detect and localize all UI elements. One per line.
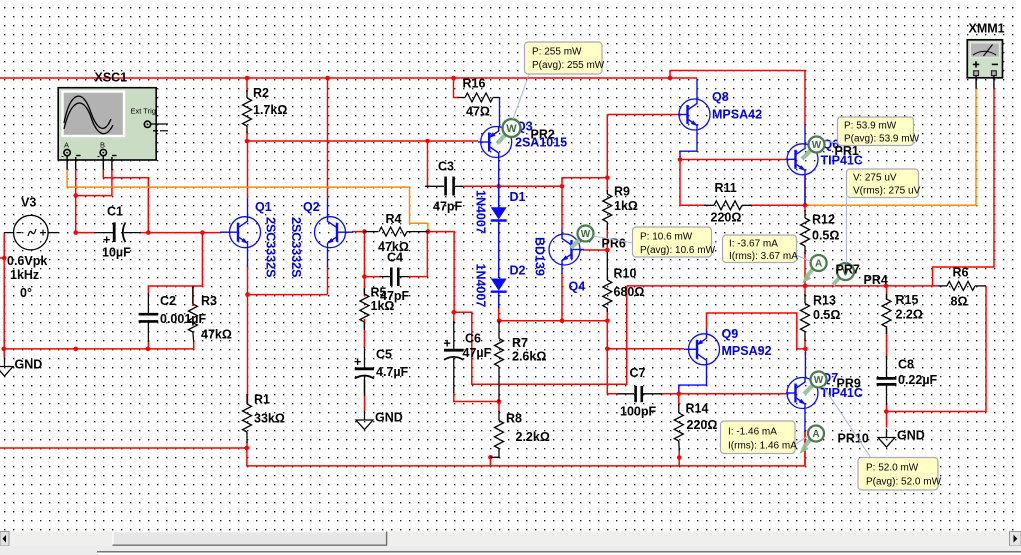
- svg-text:GND: GND: [375, 411, 403, 425]
- wire scope B minus jog: [76, 169, 112, 196]
- wire 607 column to Q9 base junction: [606, 321, 608, 349]
- svg-text:1.7kΩ: 1.7kΩ: [253, 103, 287, 117]
- node Q4 base: [605, 248, 610, 253]
- wire feedback loop rail to C6 node: [454, 286, 627, 384]
- node input B plus: [146, 230, 151, 235]
- svg-text:47pF: 47pF: [433, 200, 463, 214]
- wire R15 bottom to C8: [886, 326, 888, 358]
- svg-text:I: -3.67 mA: I: -3.67 mA: [729, 239, 778, 250]
- svg-text:C6: C6: [465, 332, 481, 346]
- transistor Q6 TIP41C npn: [785, 124, 818, 204]
- svg-text:BD139: BD139: [533, 237, 547, 276]
- wire scope A plus orange: [67, 88, 976, 232]
- svg-text:4.7µF: 4.7µF: [376, 365, 409, 379]
- svg-text:A: A: [64, 141, 69, 150]
- resistor R16 47 horizontal: [457, 93, 500, 127]
- wire R7 bottom R8 top: [498, 402, 500, 413]
- resistor R10 680 vertical: [603, 252, 612, 312]
- wire Q9 emitter up to R13 bottom node: [707, 313, 806, 349]
- svg-text:V3: V3: [21, 196, 36, 210]
- node R2 bottom: [245, 139, 250, 144]
- probe PR10 ammeter: [800, 426, 825, 455]
- node y321 D2: [497, 318, 502, 323]
- svg-text:2SC3332S: 2SC3332S: [289, 217, 303, 277]
- svg-text:I: -1.46 mA: I: -1.46 mA: [728, 427, 777, 438]
- svg-text:C8: C8: [898, 358, 914, 372]
- wire D string top lead: [498, 186, 500, 206]
- wire node jog 562 to 607 column: [562, 178, 607, 187]
- svg-text:0.5Ω: 0.5Ω: [813, 308, 840, 322]
- svg-text:V: 275 uV: V: 275 uV: [853, 173, 897, 184]
- wire Q6 emitter: [804, 176, 806, 206]
- svg-text:P: 52.0 mW: P: 52.0 mW: [866, 463, 919, 474]
- wire emitters join: [248, 294, 328, 296]
- wire V3 left down left edge: [3, 233, 5, 349]
- svg-text:2.6kΩ: 2.6kΩ: [512, 350, 546, 364]
- callout PR1 to box: [825, 141, 843, 144]
- node R4 right: [426, 229, 431, 234]
- resistor R6 8 horizontal: [938, 281, 986, 290]
- capacitor C8 0.22uF vertical: [877, 356, 897, 405]
- multimeter XMM1: [967, 40, 1002, 89]
- tooltip P52 box: [858, 458, 942, 491]
- resistor R4 47k horizontal: [363, 227, 429, 236]
- svg-text:I(rms): 1.46 mA: I(rms): 1.46 mA: [728, 441, 797, 452]
- svg-text:P(avg): 255 mW: P(avg): 255 mW: [532, 60, 605, 71]
- wire R3 top lead: [192, 286, 194, 306]
- node output rail R15: [884, 284, 889, 289]
- diode D2 1N4007: [491, 279, 507, 309]
- svg-text:2.2Ω: 2.2Ω: [896, 308, 923, 322]
- node R14 bottom: [677, 455, 682, 460]
- svg-text:R4: R4: [386, 212, 402, 226]
- tooltip V275 box: [847, 169, 921, 198]
- callout PR7 to box: [796, 255, 811, 262]
- ground GND2 C5: [356, 411, 373, 430]
- node Q6 emitter R11 R12: [803, 203, 808, 208]
- node Q3 collector: [496, 184, 501, 189]
- svg-text:TIP41C: TIP41C: [821, 154, 863, 168]
- node Q9 base: [605, 347, 610, 352]
- wire scope A minus drop: [75, 169, 77, 233]
- probe PR1 W on Q6: [802, 137, 825, 160]
- svg-text:0.5Ω: 0.5Ω: [812, 229, 839, 243]
- svg-text:GND: GND: [15, 358, 43, 372]
- svg-text:+: +: [354, 355, 361, 369]
- svg-text:R11: R11: [715, 181, 737, 195]
- resistor R12 0.5 vertical: [801, 210, 810, 254]
- wire XMM1 minus drop: [933, 88, 995, 286]
- svg-text:P: 255 mW: P: 255 mW: [532, 47, 582, 58]
- node V3 minus stub: [2, 256, 7, 261]
- svg-text:10µF: 10µF: [102, 246, 131, 260]
- resistor R15 2.2 vertical: [882, 294, 891, 334]
- node R8 jog: [488, 455, 493, 460]
- tooltip P10.6 box: [633, 227, 716, 257]
- capacitor C4 47pF horizontal: [379, 268, 409, 287]
- wire C5 bottom to gnd: [364, 380, 366, 411]
- svg-text:P(avg): 52.0 mW: P(avg): 52.0 mW: [866, 477, 942, 488]
- resistor R7 2.6k vertical: [495, 321, 504, 402]
- svg-text:2.2kΩ: 2.2kΩ: [516, 430, 550, 444]
- svg-text:P: 10.6 mW: P: 10.6 mW: [640, 232, 693, 243]
- ground GND3 C8: [878, 429, 895, 448]
- svg-text:47Ω: 47Ω: [466, 105, 490, 119]
- svg-text:C7: C7: [630, 366, 646, 380]
- source V3 sine: [4, 215, 59, 250]
- tooltip P53.9 box: [838, 117, 920, 146]
- wire R9 bottom to Q4 base junction: [606, 226, 608, 253]
- wire R10 bottom to y321 node: [606, 308, 608, 321]
- svg-text:I(rms): 3.67 mA: I(rms): 3.67 mA: [729, 251, 798, 262]
- svg-text:33kΩ: 33kΩ: [254, 412, 285, 426]
- svg-text:V(rms): 275 uV: V(rms): 275 uV: [853, 186, 921, 197]
- wire R14 top lead: [678, 394, 680, 406]
- svg-text:R6: R6: [953, 266, 969, 280]
- svg-text:R9: R9: [614, 185, 630, 199]
- wire C3 right to Q3 collector node: [461, 185, 562, 187]
- diode D1 1N4007: [491, 186, 507, 278]
- node y321 Q4 emitter: [560, 318, 565, 323]
- svg-text:R12: R12: [812, 213, 835, 227]
- svg-text:Ext Trig: Ext Trig: [131, 107, 156, 116]
- capacitor C5 4.7uF electrolytic vertical: [355, 347, 374, 396]
- callout PR2 to box: [513, 75, 529, 120]
- wire C7 right to node: [661, 393, 679, 395]
- node C7 R14 Q7 base: [677, 392, 682, 397]
- wire R6 right drop to C8 bottom: [886, 286, 986, 412]
- wire Q2 collector riser: [327, 78, 329, 198]
- scrollbar right button: [1010, 532, 1021, 547]
- callout PR6 to box: [593, 236, 633, 243]
- wire XMM1 plus orange: [805, 88, 976, 205]
- svg-text:R14: R14: [686, 402, 709, 416]
- svg-text:Q9: Q9: [722, 327, 739, 341]
- svg-text:MPSA42: MPSA42: [712, 108, 762, 122]
- status strip: [0, 546, 1021, 555]
- svg-text:C3: C3: [438, 160, 454, 174]
- node C6 bottom R7R8: [497, 399, 502, 404]
- svg-text:D1: D1: [510, 190, 526, 204]
- node C4 branch: [362, 274, 367, 279]
- svg-text:C1: C1: [107, 205, 123, 219]
- transistor Q3 2SA1015 pnp: [478, 127, 512, 187]
- node top rail R2: [245, 76, 250, 81]
- probe PR6 W on Q4: [571, 226, 594, 249]
- svg-text:XMM1: XMM1: [969, 22, 1005, 36]
- resistor R2 1.7k vertical: [243, 90, 252, 133]
- svg-text:R3: R3: [201, 294, 217, 308]
- svg-text:+: +: [444, 337, 451, 351]
- wire R12 top lead: [804, 205, 806, 212]
- wire top supply rail: [0, 77, 697, 79]
- callout PR4 to box: [845, 197, 847, 263]
- wire ground rail main: [247, 432, 805, 466]
- transistor Q7 TIP41C npn: [786, 352, 818, 432]
- wire D2 bottom lead: [498, 306, 500, 321]
- svg-text:2SC3332S: 2SC3332S: [264, 217, 278, 277]
- node gnd rail C2: [146, 347, 151, 352]
- svg-text:1kΩ: 1kΩ: [614, 199, 638, 213]
- transistor Q4 BD139 npn mirrored: [549, 229, 584, 274]
- wire R1 top from emitter node: [247, 295, 249, 405]
- oscilloscope XSC1: [58, 88, 168, 170]
- node output rail R13: [803, 284, 808, 289]
- resistor R5 1k vertical: [360, 288, 369, 330]
- svg-text:R15: R15: [896, 293, 919, 307]
- wire Q8 emitter to Q6 base: [680, 156, 785, 160]
- node R13 bottom Q7 collector: [803, 347, 808, 352]
- wire Q7 collector stub: [804, 349, 806, 355]
- wire V3 plus to C1: [76, 232, 95, 234]
- wire Q9 base: [607, 348, 684, 350]
- callout PR10 to box: [795, 436, 809, 445]
- wire R16 left lead drop: [454, 78, 460, 98]
- svg-text:C5: C5: [376, 348, 392, 362]
- svg-text:R5: R5: [371, 286, 387, 300]
- svg-text:R1: R1: [254, 393, 270, 407]
- node top rail Q6 branch: [668, 76, 673, 81]
- node C6 top: [452, 310, 457, 315]
- wire Q8 base net: [607, 114, 680, 116]
- wire Q7 emitter to rail: [804, 431, 806, 466]
- node gnd rail left: [2, 347, 7, 352]
- wire branch to Q6 collector: [670, 71, 805, 126]
- svg-text:P(avg): 53.9 mW: P(avg): 53.9 mW: [844, 134, 920, 145]
- wire C1 right to Q1 base: [140, 232, 220, 234]
- capacitor C6 47uF electrolytic vertical: [444, 321, 464, 393]
- svg-text:B: B: [100, 141, 105, 150]
- resistor R9 1k vertical: [603, 190, 612, 230]
- wire Q8 emitter down to R11: [680, 160, 706, 206]
- resistor R14 220 vertical: [674, 404, 683, 451]
- wire C8 bottom node: [886, 404, 888, 428]
- svg-text:R10: R10: [614, 267, 637, 281]
- wire Q4 collector drop: [561, 186, 563, 229]
- svg-text:0.001µF: 0.001µF: [160, 312, 206, 326]
- svg-text:C4: C4: [387, 251, 403, 265]
- node emitters join: [245, 292, 250, 297]
- svg-text:8Ω: 8Ω: [951, 295, 968, 309]
- node Q2 base R4: [362, 229, 367, 234]
- tooltip I3.67 box: [723, 235, 799, 263]
- svg-text:PR10: PR10: [838, 432, 869, 446]
- node y321 R10: [605, 318, 610, 323]
- wire R1 bottom lead: [246, 442, 248, 448]
- wire C4 right riser: [407, 232, 427, 277]
- callout PR9 to box: [823, 386, 871, 458]
- node C8 bottom gnd: [884, 409, 889, 414]
- svg-text:W: W: [506, 123, 517, 135]
- wire C2R3 tap riser: [148, 233, 202, 295]
- wire C3 tap from y141 node: [427, 141, 429, 186]
- wire Q2 emitter drop: [327, 266, 329, 295]
- node top rail Q2: [325, 76, 330, 81]
- transistor Q8 MPSA42 npn: [678, 79, 710, 157]
- wire R14 bottom to rail: [678, 450, 680, 466]
- node input C2 tap: [200, 230, 205, 235]
- svg-text:R8: R8: [506, 412, 522, 426]
- svg-text:Q8: Q8: [712, 90, 729, 104]
- tooltip P255 box: [525, 42, 605, 74]
- resistor R8 2.2k vertical: [490, 411, 503, 457]
- svg-text:R13: R13: [813, 294, 836, 308]
- svg-text:TIP41C: TIP41C: [821, 386, 863, 400]
- wire C7 left feed: [607, 349, 619, 394]
- svg-text:Q1: Q1: [255, 200, 272, 214]
- wire left edge stub: [0, 257, 4, 259]
- wire C6 bottom to R7R8 node: [454, 392, 499, 402]
- svg-text:1N4007: 1N4007: [474, 264, 488, 308]
- wire R4 C4 branch: [364, 232, 381, 277]
- wire 607 column R9 feed: [606, 115, 608, 193]
- wire Q1 emitter drop: [247, 266, 249, 295]
- scrollbar left button: [0, 532, 9, 547]
- svg-text:R2: R2: [253, 86, 269, 100]
- tooltip I1.46 box: [721, 421, 798, 454]
- svg-text:1N4007: 1N4007: [474, 190, 488, 234]
- wire R5 bottom to C5: [363, 319, 365, 348]
- wire Q4 emitter drop: [561, 273, 563, 321]
- wire R5 top lead: [363, 277, 365, 296]
- wire output rail: [627, 285, 938, 287]
- svg-text:0.6Vpk: 0.6Vpk: [7, 254, 47, 268]
- svg-text:1kΩ: 1kΩ: [371, 299, 395, 313]
- wire Q1 collector riser: [247, 141, 249, 198]
- svg-text:C2: C2: [160, 294, 176, 308]
- node input A minus upper: [73, 193, 78, 198]
- wire R13 bottom node: [804, 340, 806, 349]
- svg-text:0.22µF: 0.22µF: [898, 373, 938, 387]
- wire R15 top lead: [886, 286, 888, 300]
- wire y321 node D2 to R10 column: [499, 320, 607, 322]
- svg-text:D2: D2: [510, 264, 526, 278]
- wire C6 top lead: [453, 312, 455, 323]
- node Q4 collector: [560, 184, 565, 189]
- wire R2 bottom to Q3 base: [247, 131, 478, 141]
- node input A minus: [73, 230, 78, 235]
- capacitor C1 10uF polarized horizontal: [94, 223, 141, 243]
- svg-text:MPSA92: MPSA92: [722, 344, 772, 358]
- svg-text:Q2: Q2: [303, 200, 320, 214]
- svg-text:220Ω: 220Ω: [711, 211, 742, 225]
- wire R11 right to Q6 emitter node: [750, 204, 805, 206]
- wire R8 bottom jog to ground rail: [489, 457, 491, 466]
- svg-text:1kHz: 1kHz: [10, 268, 39, 282]
- transistor Q2 2SC3332S npn mirrored: [315, 198, 354, 267]
- svg-text:P: 53.9 mW: P: 53.9 mW: [844, 121, 897, 132]
- ground GND1 left: [0, 349, 13, 376]
- node Q8 emitter: [678, 157, 683, 162]
- svg-text:PR4: PR4: [864, 273, 888, 287]
- svg-text:0°: 0°: [20, 286, 32, 300]
- svg-text:Q4: Q4: [569, 280, 586, 294]
- capacitor C2 0.001uF vertical: [139, 293, 159, 342]
- wire Q4 base: [583, 249, 607, 251]
- capacitor C3 47pF horizontal: [425, 177, 463, 196]
- node 607 jog: [605, 175, 610, 180]
- svg-text:P(avg): 10.6 mW: P(avg): 10.6 mW: [640, 245, 716, 256]
- svg-text:100pF: 100pF: [620, 405, 656, 419]
- probe PR2 W on Q3: [497, 119, 521, 144]
- svg-text:R7: R7: [512, 336, 528, 350]
- resistor R3 47k vertical: [188, 286, 197, 342]
- wire scope B plus drop: [103, 169, 148, 233]
- node gnd rail scope ref: [73, 347, 78, 352]
- wire Q7 base net: [679, 393, 786, 395]
- probe PR9 W on Q7: [804, 372, 827, 395]
- wire R2 top lead net: [246, 78, 248, 92]
- svg-text:R16: R16: [463, 77, 486, 91]
- resistor R13 0.5 vertical: [801, 294, 810, 341]
- transistor Q1 2SC3332S npn: [220, 198, 261, 267]
- svg-text:220Ω: 220Ω: [687, 418, 718, 432]
- probe PR4 voltage: [833, 263, 854, 285]
- transistor Q9 MPSA92 pnp: [679, 329, 720, 392]
- svg-text:47kΩ: 47kΩ: [201, 328, 232, 342]
- resistor R1 33k vertical: [243, 394, 252, 443]
- wire ground rail left segment: [0, 447, 247, 449]
- node top rail R16: [451, 76, 456, 81]
- wire R12 bottom to output rail: [804, 252, 806, 286]
- svg-text:2SA1015: 2SA1015: [515, 136, 567, 150]
- scrollbar thumb: [113, 532, 388, 546]
- wire C2 bottom: [147, 341, 149, 349]
- svg-text:XSC1: XSC1: [95, 71, 128, 85]
- svg-text:680Ω: 680Ω: [614, 285, 645, 299]
- node R1 bottom: [245, 446, 250, 451]
- svg-text:PR7: PR7: [836, 263, 860, 277]
- scrollbar track: [0, 532, 1021, 547]
- wire Q2 base to R4: [352, 231, 365, 233]
- wire C6 node riser to R4 right: [428, 232, 454, 313]
- wire R13 top lead: [804, 286, 806, 296]
- capacitor C7 100pF horizontal: [617, 386, 662, 402]
- wire analog ground rail: [4, 340, 194, 349]
- probe PR7 ammeter: [802, 255, 827, 284]
- resistor R11 220 horizontal: [704, 201, 752, 210]
- node C3 tap: [425, 139, 430, 144]
- svg-text:GND: GND: [897, 429, 925, 443]
- svg-text:47µF: 47µF: [463, 346, 492, 360]
